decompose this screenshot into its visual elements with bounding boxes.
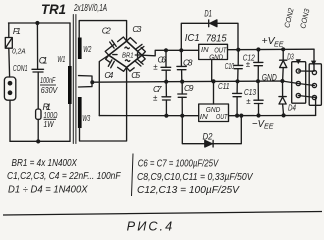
node GND C8C9 — [180, 80, 184, 84]
connector CON2 — [292, 62, 306, 103]
svg-text:W1: W1 — [57, 54, 65, 64]
svg-text:±: ± — [246, 60, 251, 69]
node +VEE C12 — [256, 47, 260, 51]
node +raw C6 junction — [164, 48, 168, 52]
bridge AC mark top — [125, 47, 129, 49]
wire C1 branch upper — [36, 23, 38, 69]
bridge BR1 diamond — [109, 41, 142, 67]
wire primary bottom rail — [10, 140, 70, 142]
diode D3 — [280, 49, 287, 81]
bridge plus mark — [135, 53, 139, 57]
bridge AC mark bottom — [125, 60, 129, 62]
svg-text:C8: C8 — [183, 57, 193, 67]
node GND D3D4 — [280, 79, 284, 83]
node +VEE C10 — [236, 48, 240, 52]
svg-text:РИС.4: РИС.4 — [127, 220, 175, 234]
capacitor C5 parallel branch — [127, 55, 146, 71]
node GND C10C11 — [235, 79, 239, 83]
svg-text:C13: C13 — [244, 87, 256, 97]
capacitor C8 — [177, 50, 186, 81]
node center tap — [90, 80, 94, 84]
svg-text:OUT: OUT — [216, 114, 228, 121]
svg-text:TR1: TR1 — [41, 1, 66, 17]
diode D1 symbol — [209, 20, 217, 27]
capacitor C7 — [162, 82, 171, 116]
capacitor C13 — [254, 81, 263, 115]
wire center tap bracket — [79, 76, 93, 87]
svg-text:IN: IN — [201, 47, 210, 54]
wire +VEE to connector top pins — [298, 49, 314, 71]
fuse F1 — [5, 38, 12, 49]
svg-text:C12,C13 = 100µF/25V: C12,C13 = 100µF/25V — [137, 184, 240, 196]
node top rail junction — [35, 21, 39, 25]
svg-text:2x18V/0,1A: 2x18V/0,1A — [73, 2, 107, 14]
svg-text:C1: C1 — [39, 56, 48, 66]
wire IC2 GND lead — [213, 81, 215, 104]
svg-text:C2: C2 — [102, 26, 111, 36]
winding W2 — [78, 38, 82, 60]
svg-text:±: ± — [246, 97, 251, 106]
node GND regulators — [211, 79, 215, 83]
svg-text:BR1: BR1 — [122, 51, 134, 60]
notes separator line — [132, 154, 134, 197]
wire W1 top lead — [69, 23, 71, 66]
svg-text:630V: 630V — [41, 85, 59, 95]
wire IC1 GND lead — [211, 60, 213, 82]
svg-text:C3: C3 — [132, 24, 141, 34]
node +VEE D3 — [281, 47, 285, 51]
node -VEE C11 — [235, 114, 239, 118]
node -VEE D4 — [282, 113, 286, 117]
wire -VEE to connector bottom pins — [298, 96, 315, 116]
svg-text:IN: IN — [200, 114, 209, 121]
svg-text:W3: W3 — [82, 113, 90, 123]
svg-text:C8,C9,C10,C11 = 0,33µF/50V: C8,C9,C10,C11 = 0,33µF/50V — [137, 171, 253, 183]
svg-text:7815: 7815 — [206, 33, 227, 44]
transformer core — [73, 15, 76, 144]
svg-text:C1,C2,C3, C4 = 22nF... 100nF: C1,C2,C3, C4 = 22nF... 100nF — [7, 170, 121, 182]
capacitor C9 — [178, 82, 187, 116]
capacitor C12 — [254, 50, 263, 82]
svg-text:D2: D2 — [203, 132, 214, 143]
connector CON3 — [309, 64, 321, 106]
svg-text:F1: F1 — [13, 26, 21, 36]
svg-text:D1 ÷ D4 = 1N400X: D1 ÷ D4 = 1N400X — [8, 184, 88, 196]
svg-text:W2: W2 — [83, 44, 91, 54]
bridge minus mark — [113, 54, 117, 56]
wire W2 top lead to bridge AC1 — [79, 21, 126, 41]
wire -VEE rail — [229, 114, 316, 116]
wire W1 bottom lead — [69, 104, 71, 141]
resistor R1 — [36, 109, 41, 119]
capacitor C10 — [234, 50, 243, 82]
node +raw C8 junction — [179, 48, 183, 52]
diode D4 — [279, 81, 286, 115]
wire F1 to CON1 — [8, 48, 11, 77]
wire bridge plus to +raw rail — [142, 50, 199, 56]
svg-text:100Ω: 100Ω — [44, 111, 58, 120]
capacitor C4 parallel branch — [106, 55, 127, 71]
svg-text:1W: 1W — [44, 120, 55, 129]
connector CON2 arrow — [296, 59, 301, 64]
connector CON3 arrow — [311, 61, 316, 66]
node -VEE C13 — [256, 113, 260, 117]
winding W3 — [78, 97, 82, 128]
wire CON1 to bottom rail — [9, 100, 11, 141]
wire +VEE rail — [228, 48, 315, 51]
svg-text:GND: GND — [209, 54, 223, 61]
label C1 value 100nF/630V — [40, 75, 58, 95]
capacitor C11 — [233, 81, 242, 115]
svg-text:C5: C5 — [131, 70, 140, 80]
connector CON1 — [4, 77, 15, 100]
svg-text:±: ± — [153, 62, 158, 71]
label +VEE — [262, 35, 285, 48]
svg-text:EE: EE — [274, 39, 284, 48]
wire R1 to bottom rail — [37, 119, 39, 141]
wire W3 bottom lead to bridge AC2 — [80, 67, 127, 141]
wire primary top rail — [9, 22, 71, 24]
svg-text:GND: GND — [206, 107, 221, 114]
svg-text:GND: GND — [262, 73, 278, 83]
diode D2 symbol — [205, 140, 213, 147]
wire GND rail — [92, 81, 314, 86]
capacitor C3 parallel branch — [127, 38, 146, 56]
capacitor C2 parallel branch — [105, 37, 126, 55]
svg-text:−V: −V — [252, 118, 265, 130]
wire -raw rail to IC2 IN — [99, 115, 198, 117]
label IC1 7815 — [185, 33, 227, 44]
svg-text:IC1: IC1 — [185, 33, 200, 44]
regulator IC2 7915 — [199, 104, 229, 122]
label -VEE — [252, 118, 274, 131]
svg-text:C9: C9 — [184, 83, 194, 93]
svg-text:D4: D4 — [288, 102, 296, 112]
svg-text:C6 = C7 = 1000µF/25V: C6 = C7 = 1000µF/25V — [138, 158, 219, 170]
node -raw C7 — [164, 114, 168, 118]
svg-text:0,2A: 0,2A — [12, 49, 26, 56]
svg-text:EE: EE — [264, 121, 274, 130]
svg-text:±: ± — [153, 93, 158, 102]
capacitor C6 — [161, 50, 171, 81]
svg-text:100nF: 100nF — [40, 75, 56, 85]
svg-text:BR1 = 4x 1N400X: BR1 = 4x 1N400X — [12, 157, 78, 169]
node GND C12C13 — [256, 79, 260, 83]
svg-text:CON1: CON1 — [13, 64, 28, 73]
node -VEE D2 — [239, 114, 243, 118]
svg-text:C6: C6 — [158, 55, 167, 65]
svg-text:D1: D1 — [204, 9, 212, 20]
capacitor C1 — [32, 69, 44, 72]
wire F1 branch top — [8, 23, 10, 38]
wire bridge minus down — [99, 55, 108, 115]
svg-text:C11: C11 — [218, 81, 230, 91]
caption separator line — [3, 212, 322, 216]
node -raw C9 D2 — [180, 114, 184, 118]
diode D2 protection loop — [182, 116, 241, 144]
diode D1 protection loop — [181, 23, 238, 50]
svg-text:OUT: OUT — [214, 47, 227, 54]
svg-text:C4: C4 — [104, 70, 113, 80]
label R1 value 100ohm/1W — [44, 111, 58, 129]
node GND C6C7 — [164, 80, 168, 84]
winding W1 — [68, 66, 72, 104]
node bottom rail junction — [36, 139, 40, 143]
regulator IC1 7815 — [199, 44, 228, 59]
wire C1 to R1 — [37, 72, 39, 109]
svg-text:C10: C10 — [225, 62, 235, 71]
svg-text:D3: D3 — [287, 52, 294, 62]
